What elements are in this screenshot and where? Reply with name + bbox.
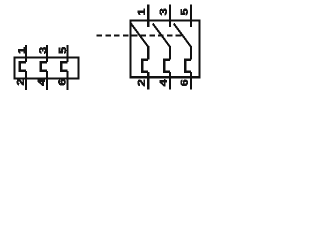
breaker contact blade pole 1: [131, 24, 148, 47]
terminal lead 3: [46, 45, 48, 62]
pin label 4 (left figure): [38, 79, 45, 86]
pin label 1 (right figure): [138, 9, 145, 15]
thermal release pole 2: [164, 60, 170, 72]
breaker contact blade pole 2: [153, 24, 170, 47]
pole 3 conductor: [190, 46, 192, 60]
pin label 6 (left figure): [58, 79, 65, 85]
terminal lead 5: [66, 45, 68, 62]
pin label 2 (left figure): [17, 79, 24, 85]
overload relay F1 outline box (left figure): [15, 57, 79, 78]
pin label 4 (right figure): [160, 79, 167, 86]
trip linkage dashed line: [97, 35, 184, 37]
pin label 3 (right figure): [160, 9, 167, 15]
terminal lead 2: [25, 71, 27, 90]
breaker contact blade pole 3: [174, 24, 191, 47]
pin label 5 (right figure): [181, 9, 188, 15]
thermal element pole 5-6: [61, 62, 67, 71]
thermal element pole 1-2: [20, 62, 26, 71]
pin label 6 (right figure): [181, 80, 188, 86]
terminal lead 1: [25, 45, 27, 62]
pole 2 conductor: [169, 46, 171, 60]
terminal lead 3: [169, 5, 171, 28]
pin label 2 (right figure): [138, 80, 145, 86]
terminal lead 4: [46, 71, 48, 90]
terminal lead 2: [147, 72, 149, 90]
pin label 1 (left figure): [18, 47, 25, 53]
terminal lead 5: [190, 5, 192, 28]
terminal lead 6: [66, 71, 68, 90]
thermal element pole 3-4: [41, 62, 47, 71]
terminal lead 4: [169, 72, 171, 90]
terminal lead 1: [147, 5, 149, 28]
thermal release pole 1: [142, 60, 148, 72]
pin label 3 (left figure): [39, 47, 46, 53]
circuit breaker Q1 outline box (right figure): [131, 20, 200, 77]
pole 1 conductor: [147, 46, 149, 60]
pin label 5 (left figure): [59, 47, 66, 53]
terminal lead 6: [190, 72, 192, 90]
thermal release pole 3: [185, 60, 191, 72]
